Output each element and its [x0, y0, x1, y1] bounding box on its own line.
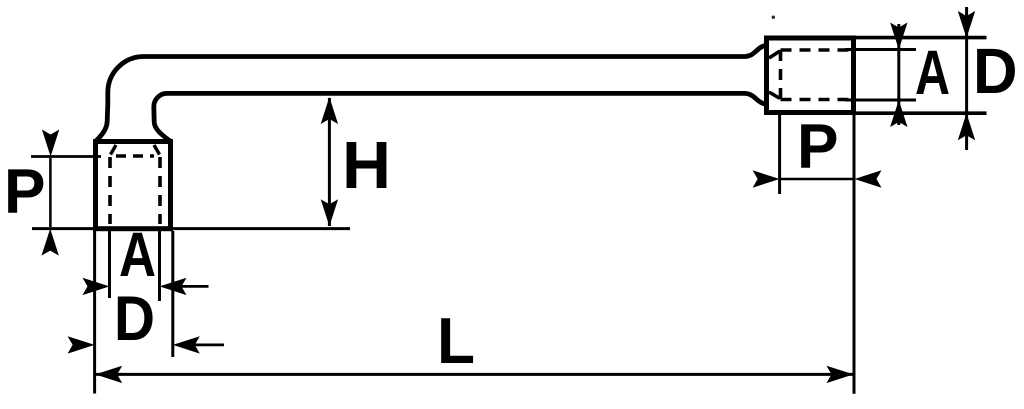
dimension A left: left arrow (right-pointing) [83, 278, 110, 295]
dimension P right: left extension line (hole depth) [778, 114, 781, 194]
right socket hole dashed bottom [781, 98, 852, 102]
dimension A right: bottom arrow (up) [890, 100, 907, 127]
scan speck [772, 16, 775, 19]
left socket hole dashed cone right [154, 145, 160, 155]
svg-text:P: P [797, 112, 839, 182]
dimension D left: right stub line [194, 343, 225, 346]
dimension D left: outer-left extension line (shared with L) [93, 231, 96, 394]
dimension H: vertical line [328, 98, 331, 226]
dimension A left: inner-right extension line [158, 231, 161, 301]
dimension A right: bottom extension line [845, 99, 916, 102]
dimension A left: right stub line [180, 285, 209, 288]
dimension A left: inner-left extension line [108, 231, 111, 298]
svg-text:D: D [973, 35, 1018, 107]
dimension P right: right arrow (left-pointing) [855, 170, 882, 187]
dimension D right: bottom extension line [855, 111, 987, 115]
dimension A right: top extension line [845, 48, 916, 51]
svg-text:P: P [4, 157, 46, 227]
svg-text:L: L [437, 304, 475, 377]
dimension L: left arrow (left-pointing) [95, 366, 122, 383]
dimension L: right arrow (right-pointing) [827, 366, 854, 383]
baseline long extension line (P left bottom + H bottom reference) [32, 227, 350, 230]
right socket hole dashed cone top [769, 51, 780, 58]
svg-text:A: A [915, 38, 950, 108]
right socket hole dashed cone bottom [769, 92, 780, 99]
left socket hole dashed cone left [111, 145, 117, 155]
dimension P left: vertical line [49, 158, 52, 227]
dimension D left: left arrow (right-pointing) [68, 336, 95, 353]
dimension H: top arrow (up) [321, 97, 338, 124]
left socket hole dashed left [108, 157, 112, 224]
dimension D right: top extension line [855, 36, 987, 40]
dimension L: line [96, 373, 853, 376]
dimension D left: outer-right extension line [171, 231, 174, 357]
dimension A left: right arrow (left-pointing) [160, 278, 187, 295]
dimension D right: bottom arrow (up) [958, 113, 975, 140]
dimension D left: right arrow (left-pointing) [173, 336, 200, 353]
dimension H: bottom arrow (down) [321, 199, 338, 226]
dimension D right: top arrow (down) [958, 11, 975, 38]
wrench inner outline (left socket neck inner, inner bend, bottom shaft edge, right flare) [154, 93, 767, 141]
left socket body [96, 142, 171, 229]
svg-text:A: A [119, 220, 156, 290]
right socket hole dashed top [781, 48, 852, 52]
wrench outer outline (left socket neck, bend, top shaft edge, right flare) [96, 45, 767, 141]
left socket hole dashed right [158, 157, 162, 224]
dimension D right: vertical line [965, 7, 968, 150]
right socket hole dashed bottom-of-hole vertical [779, 50, 783, 100]
dimension P left: top arrow (down) [42, 130, 59, 157]
right mouth extension line (P right + L right) [853, 115, 856, 394]
dimension P right: left arrow (right-pointing) [753, 170, 780, 187]
svg-text:H: H [342, 128, 391, 203]
dimension A right: vertical line [897, 24, 900, 125]
left socket hole dashed top [116, 154, 154, 158]
dimension P left: top extension line [31, 155, 101, 158]
svg-text:D: D [114, 284, 155, 354]
right socket body [767, 38, 854, 113]
dimension P right: line [780, 178, 853, 181]
dimension P left: bottom arrow (up) [42, 229, 59, 256]
dimension A right: top arrow (down) [890, 23, 907, 50]
